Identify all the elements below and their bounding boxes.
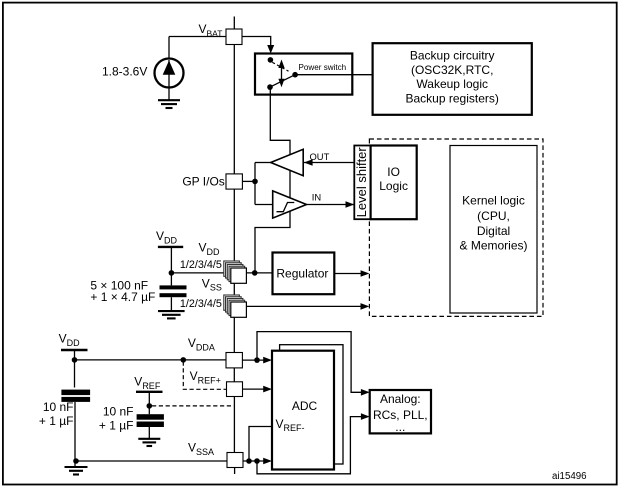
svg-text:Logic: Logic xyxy=(379,179,408,193)
svg-text:IO: IO xyxy=(387,165,400,179)
svg-text:GP I/Os: GP I/Os xyxy=(182,175,224,189)
svg-text:+ 1 × 4.7 µF: + 1 × 4.7 µF xyxy=(90,290,155,304)
svg-text:+ 1 µF: + 1 µF xyxy=(39,414,74,428)
svg-text:ai15496: ai15496 xyxy=(552,471,586,482)
svg-text:Backup circuitry: Backup circuitry xyxy=(410,49,495,63)
svg-text:Power switch: Power switch xyxy=(299,63,347,72)
svg-text:ADC: ADC xyxy=(292,399,318,413)
svg-text:1/2/3/4/5: 1/2/3/4/5 xyxy=(180,298,222,310)
svg-text:& Memories): & Memories) xyxy=(459,239,527,253)
svg-text:Wakeup logic: Wakeup logic xyxy=(416,77,488,91)
svg-text:+ 1 µF: + 1 µF xyxy=(99,418,134,432)
svg-text:Kernel logic: Kernel logic xyxy=(462,193,525,207)
svg-text:1.8-3.6V: 1.8-3.6V xyxy=(102,65,147,79)
svg-text:...: ... xyxy=(395,420,405,434)
svg-text:Digital: Digital xyxy=(477,224,510,238)
svg-text:OUT: OUT xyxy=(310,151,330,162)
svg-text:Backup registers): Backup registers) xyxy=(406,91,499,105)
svg-text:10 nF: 10 nF xyxy=(43,400,74,414)
svg-text:IN: IN xyxy=(312,191,321,202)
svg-text:10 nF: 10 nF xyxy=(103,405,134,419)
svg-text:1/2/3/4/5: 1/2/3/4/5 xyxy=(180,259,222,271)
svg-text:(OSC32K,RTC,: (OSC32K,RTC, xyxy=(411,63,493,77)
svg-text:Regulator: Regulator xyxy=(276,266,328,280)
svg-text:Analog:: Analog: xyxy=(380,392,421,406)
svg-text:(CPU,: (CPU, xyxy=(477,209,510,223)
svg-text:Level shifter: Level shifter xyxy=(354,147,369,218)
